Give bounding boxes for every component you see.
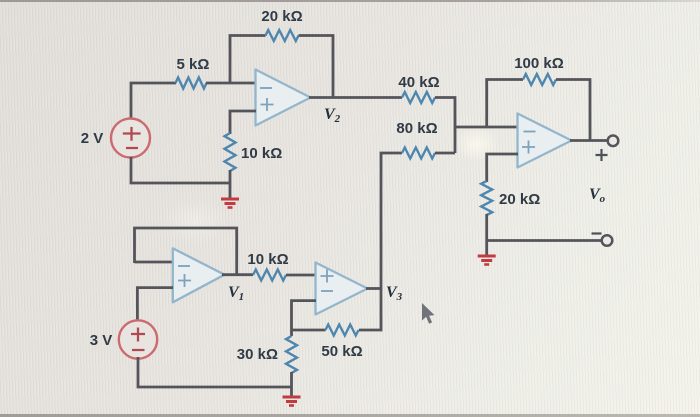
label 100 kOhm [514, 55, 564, 72]
wire U2 inverting input [135, 261, 174, 264]
svg-text:3 V: 3 V [90, 332, 113, 349]
svg-text:V3: V3 [386, 284, 403, 303]
label 80 kOhm [396, 120, 437, 137]
svg-text:80 kΩ: 80 kΩ [396, 120, 437, 137]
terminal output top [608, 136, 619, 147]
resistor R 20k vertical zigzag [481, 181, 492, 215]
label V3 [386, 284, 403, 303]
resistor R 5k zigzag [176, 78, 207, 89]
source V 3V [119, 320, 157, 358]
label 30 kOhm [237, 346, 278, 363]
wire feedback loop U3 right vertical [556, 80, 590, 141]
wire U3 non-inverting input [487, 154, 518, 182]
wire feedback loop U1 left vertical [230, 36, 266, 85]
label V1 [228, 284, 244, 303]
wire 80k right to summing node [435, 152, 455, 155]
wire U4 inverting input [292, 301, 317, 336]
label 5 kOhm [177, 56, 210, 73]
wire feedback loop U3 left vertical [487, 80, 523, 129]
ground under 30k [283, 397, 301, 406]
resistor R 20k zigzag [266, 30, 299, 41]
label 2 V [81, 130, 104, 147]
svg-text:20 kΩ: 20 kΩ [499, 191, 540, 208]
svg-text:2 V: 2 V [81, 130, 104, 147]
wire 20k bottom to ground [485, 214, 488, 255]
wire feedback loop U1 right vertical to output [299, 36, 334, 98]
op-amp U4 [316, 263, 368, 315]
source V 2V [111, 119, 150, 158]
node V2 output wire of U1 with 40k [309, 96, 402, 99]
wire U2 output with 10k [222, 273, 253, 276]
wire 2V source bottom loop [131, 157, 230, 183]
wire 40k to summing node vertical [435, 98, 455, 154]
resistor R 10k bottom zigzag [253, 270, 286, 281]
label 3 V [90, 332, 113, 349]
svg-text:30 kΩ: 30 kΩ [237, 346, 278, 363]
wire 10k bottom to ground [229, 170, 232, 198]
label V2 [324, 106, 341, 125]
svg-text:100 kΩ: 100 kΩ [514, 55, 564, 72]
wire 30k bottom to ground [290, 372, 293, 396]
label minus output [592, 232, 602, 234]
resistor R 80k zigzag [402, 148, 435, 159]
op-amp U2 [173, 248, 225, 302]
wire U3 output [570, 139, 608, 142]
resistor R 50k zigzag [326, 325, 359, 336]
label 40 kOhm [398, 74, 439, 91]
wire feedback loop U2 top [135, 228, 237, 275]
svg-text:V2: V2 [324, 106, 341, 125]
label 50 kOhm [321, 343, 362, 360]
svg-text:50 kΩ: 50 kΩ [321, 343, 362, 360]
svg-text:10 kΩ: 10 kΩ [241, 145, 282, 162]
wire U4 output to V3 node [366, 287, 381, 290]
svg-text:V1: V1 [228, 284, 244, 303]
label 20 kOhm [261, 8, 302, 25]
ground under 20k [478, 256, 496, 265]
resistor R 40k zigzag [402, 92, 435, 103]
resistor R 100k zigzag [523, 74, 556, 85]
resistor R 30k vertical zigzag [286, 336, 297, 373]
wire 5k to op-amp U1 inverting input [206, 82, 256, 85]
wire U1 non-inverting input [230, 111, 256, 134]
label Vo [589, 186, 606, 205]
svg-text:20 kΩ: 20 kΩ [261, 8, 302, 25]
resistor R 10k vertical zigzag [225, 133, 236, 171]
mouse cursor [422, 303, 435, 324]
label 20 kOhm right [499, 191, 540, 208]
svg-text:40 kΩ: 40 kΩ [398, 74, 439, 91]
svg-text:10 kΩ: 10 kΩ [247, 251, 288, 268]
ground under 10k [221, 199, 239, 208]
wire 50k right vertical up [359, 288, 381, 330]
wire 3V source bottom loop [138, 357, 292, 387]
wire U2 non-inverting input from 3V [137, 288, 173, 321]
label 10 kOhm [241, 145, 282, 162]
terminal output bottom [602, 235, 613, 246]
op-amp U1 [256, 70, 311, 126]
svg-text:Vo: Vo [589, 186, 606, 205]
label 10 kOhm bottom [247, 251, 288, 268]
wire bottom terminal [487, 239, 602, 242]
svg-text:5 kΩ: 5 kΩ [177, 56, 210, 73]
wire feedback 50k bottom [292, 329, 326, 332]
wire from 2V source top to 5k resistor [131, 83, 176, 119]
op-amp U3 [518, 114, 572, 168]
wire 10k to U4 non-inverting input [286, 274, 316, 277]
wire V3 node vertical up to 80k [381, 153, 402, 289]
wire summing node to U3 inverting input [454, 126, 518, 129]
label plus output [596, 149, 608, 161]
